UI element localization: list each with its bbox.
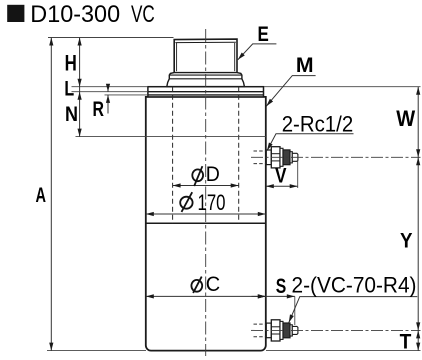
port2 step	[290, 325, 292, 336]
collar top extension to W	[264, 86, 421, 88]
port2 ring groove	[280, 321, 283, 339]
plunger top chamfer line	[175, 41, 235, 43]
cylinder body outline	[146, 97, 266, 351]
body joint line	[146, 222, 266, 224]
dimension A	[50, 38, 52, 351]
dimension phi D	[173, 185, 239, 187]
port2 hex nut	[271, 320, 280, 341]
plunger base flare	[167, 73, 245, 87]
collar ridge extension to left (L bottom)	[72, 91, 148, 93]
port1 washer	[266, 150, 271, 165]
plunger (ram) E	[167, 39, 245, 87]
port2 hex facet line top	[271, 326, 280, 328]
plunger thread line left	[176, 43, 178, 71]
svg-text:2-Rc1/2: 2-Rc1/2	[282, 112, 354, 137]
dimension phi 170	[146, 213, 266, 215]
N extension line	[76, 136, 266, 138]
dimension R	[107, 85, 109, 113]
bore hidden line right	[238, 87, 240, 223]
dimension W	[417, 87, 419, 158]
svg-text:A: A	[36, 184, 47, 207]
port2 hidden bore lines	[254, 323, 266, 325]
leader 2-Rc1/2	[267, 134, 354, 151]
svg-text:S: S	[276, 275, 287, 298]
port1 hidden bore lines	[254, 150, 266, 152]
port1 hex facet line bottom	[271, 160, 280, 162]
oil port 1 (upper, 2-Rc1/2)	[254, 147, 298, 168]
label phi 170	[180, 192, 192, 212]
svg-text:H: H	[65, 50, 77, 75]
svg-text:W: W	[396, 106, 415, 131]
dimension S	[252, 295, 266, 297]
collar ridge line 1	[148, 91, 264, 93]
dimension T	[417, 330, 419, 350]
label phi C	[191, 277, 202, 293]
V extension vertical	[297, 159, 299, 189]
flare ridge line 2	[169, 78, 242, 80]
title block square	[7, 5, 24, 22]
collar (gland)	[148, 87, 264, 97]
top extension line	[48, 37, 174, 39]
dimension phi C	[146, 295, 266, 297]
port2 coupler sleeve (knurled)	[283, 323, 290, 338]
collar ridge line 2	[148, 94, 264, 96]
flare ridge line 1	[169, 74, 242, 76]
svg-text:D: D	[206, 163, 220, 186]
collar ridge2 extension to left (R)	[105, 94, 148, 96]
plunger outline	[174, 39, 237, 73]
svg-text:2-(VC-70-R4): 2-(VC-70-R4)	[292, 273, 417, 298]
port1 fitting	[266, 147, 298, 168]
svg-text:L: L	[64, 78, 74, 101]
port2 nipple tip	[292, 326, 298, 334]
svg-text:R: R	[92, 98, 104, 121]
dimension H/L/N shared line	[79, 38, 81, 137]
svg-text:M: M	[296, 54, 314, 77]
port1 coupler sleeve (knurled)	[283, 150, 290, 165]
collar top extension to left (L)	[72, 86, 148, 88]
svg-text:C: C	[206, 273, 220, 296]
plunger thread line right	[234, 43, 236, 71]
svg-text:V: V	[275, 165, 287, 188]
port2 washer	[266, 323, 271, 338]
port1 nipple tip	[292, 153, 298, 161]
port1 center line to W/Y dims	[251, 156, 421, 158]
leader 2-(VC-70-R4)	[289, 297, 418, 323]
svg-text:VC: VC	[131, 1, 155, 28]
dimension V	[266, 185, 298, 187]
port2 center line to Y/T dims	[251, 329, 421, 331]
dimension Y	[417, 157, 419, 330]
leader E	[238, 44, 277, 60]
S extension vertical	[294, 296, 296, 325]
port2 hex facet line bottom	[271, 333, 280, 335]
bore hidden line left	[172, 87, 174, 223]
centerline (vertical dash-dot)	[205, 29, 207, 356]
svg-text:170: 170	[198, 190, 226, 215]
port1 step	[290, 152, 292, 163]
label phi D	[192, 166, 203, 186]
svg-text:D10-300: D10-300	[30, 1, 120, 28]
bottom extension line left	[47, 350, 146, 352]
svg-text:E: E	[257, 23, 268, 46]
port2 fitting	[266, 320, 298, 341]
svg-text:N: N	[65, 103, 78, 126]
port1 hex facet line top	[271, 153, 280, 155]
port1 hex nut	[271, 147, 280, 168]
bottom extension line right	[266, 350, 421, 352]
oil port 2 (lower, VC-70-R4)	[254, 320, 298, 341]
port1 ring groove	[280, 148, 283, 166]
svg-text:T: T	[400, 330, 412, 353]
svg-text:Y: Y	[400, 230, 413, 253]
leader M	[266, 76, 315, 107]
